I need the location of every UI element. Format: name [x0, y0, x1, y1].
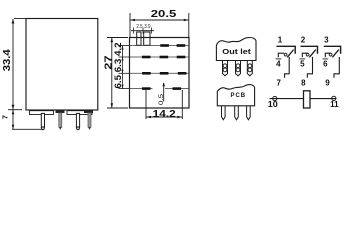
contact pole 2	[300, 36, 318, 88]
NC contact wire pole 2	[301, 46, 318, 53]
common lead pole 2	[302, 53, 308, 57]
coil pad A bottom view	[137, 32, 141, 45]
svg-text:6.5 6.3 4.2: 6.5 6.3 4.2	[113, 42, 123, 88]
dimension 7	[12, 110, 43, 129]
terminal 10 circle	[273, 96, 277, 100]
svg-text:10: 10	[268, 100, 279, 109]
svg-text:3: 3	[324, 36, 329, 45]
relay body side view	[26, 19, 98, 111]
pin 1 side view	[41, 113, 44, 129]
common lead pole 3	[325, 53, 331, 57]
coil K1	[304, 91, 311, 108]
NO lead pole 1	[285, 57, 290, 78]
pcb pin 3	[247, 106, 251, 120]
movable blade pole 3	[332, 50, 338, 58]
dimension 2.5 3.9	[131, 28, 154, 34]
dimension 27	[107, 38, 128, 109]
NC contact wire pole 1	[277, 46, 296, 53]
pad row D	[130, 87, 190, 90]
relay bottom view outline	[130, 38, 190, 109]
svg-text:2.5: 2.5	[136, 24, 142, 30]
pin 4 side view	[88, 113, 91, 130]
svg-text:8: 8	[301, 79, 306, 88]
movable blade pole 1	[287, 50, 293, 58]
terminal 4 tick	[276, 58, 282, 60]
coil wire right	[310, 98, 337, 100]
outlet terminal 2	[236, 61, 241, 76]
contact pole 3	[323, 36, 341, 88]
svg-text:5: 5	[300, 60, 305, 69]
pcb pin 1	[222, 106, 226, 120]
svg-text:9: 9	[325, 79, 330, 88]
NO lead pole 3	[334, 57, 339, 78]
NC contact wire pole 3	[324, 46, 341, 53]
svg-text:14.2: 14.2	[153, 109, 177, 120]
relay base feet right	[67, 111, 92, 115]
svg-text:3.9: 3.9	[144, 24, 150, 30]
pivot circle pole 1	[284, 53, 287, 56]
svg-text:11: 11	[330, 100, 339, 109]
pcb pin 2	[235, 106, 239, 120]
svg-text:2: 2	[301, 36, 306, 45]
svg-text:1: 1	[278, 36, 283, 45]
terminal 11 circle	[332, 96, 336, 100]
svg-text:0.5: 0.5	[158, 94, 165, 105]
dimension 0.5 leader	[163, 83, 165, 102]
coil pad B bottom view	[144, 32, 150, 45]
svg-text:20.5: 20.5	[151, 9, 177, 20]
outlet mounting view	[216, 38, 256, 61]
coil wire	[270, 98, 304, 100]
terminal 6 tick	[323, 58, 329, 60]
relay base feet left	[30, 111, 54, 115]
outlet terminal 1	[223, 61, 228, 76]
svg-text:PCB: PCB	[231, 92, 247, 99]
svg-text:7: 7	[276, 79, 281, 88]
svg-text:33.4: 33.4	[2, 49, 13, 71]
pcb mounting view	[217, 85, 254, 106]
pivot circle pole 3	[329, 53, 332, 56]
pad row A	[130, 44, 190, 47]
svg-text:6: 6	[323, 60, 328, 69]
contact pole 1	[276, 36, 296, 88]
dimension 6.5 6.3 4.2	[119, 46, 131, 89]
svg-text:4: 4	[276, 60, 281, 69]
pin 2 side view	[59, 113, 62, 130]
NO lead pole 2	[307, 57, 312, 78]
movable blade pole 2	[309, 50, 315, 58]
common lead pole 1	[278, 53, 284, 57]
relay base foot dark bar 2	[84, 110, 93, 113]
terminal 5 tick	[300, 58, 306, 60]
pad row C	[130, 72, 190, 75]
pad row B	[130, 56, 190, 59]
dimension 14.2	[146, 90, 182, 119]
outlet terminal 3	[247, 61, 252, 76]
pivot circle pole 2	[306, 53, 309, 56]
relay base foot dark bar 1	[56, 110, 65, 113]
dimension 20.5	[130, 13, 189, 37]
svg-text:7: 7	[0, 115, 9, 119]
pin 3 side view	[76, 113, 79, 129]
svg-text:Out let: Out let	[222, 47, 251, 56]
dimension 33.4	[8, 19, 27, 110]
